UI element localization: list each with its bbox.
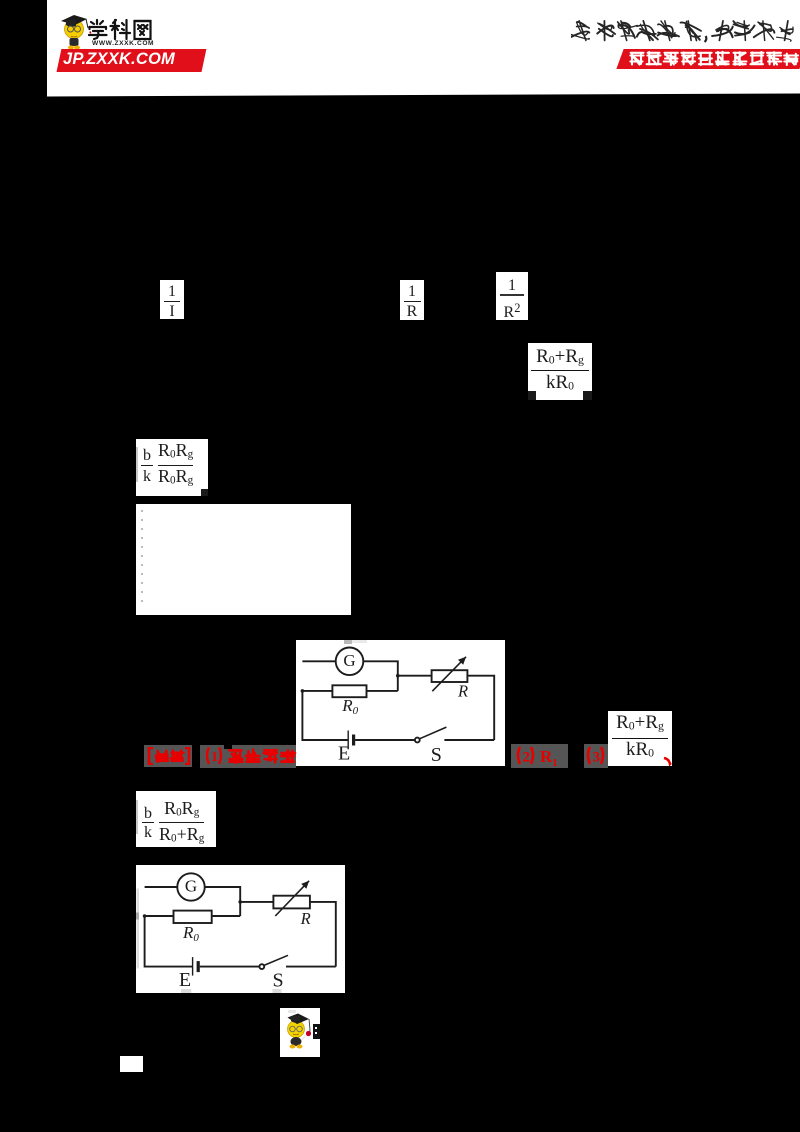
black fragment right of mascot [313,1024,320,1039]
red text (3) [584,744,608,768]
blank white region [136,504,351,615]
red comma [662,753,673,763]
small white rect [120,1056,143,1072]
formula b/k = R0Rg/(R0+Rg) [136,791,216,847]
wire junction to R [240,900,273,902]
red JP.ZXXK.COM banner [57,49,207,72]
wire junction down to R0 branch [397,676,399,691]
wire R0 to junction riser [367,690,398,692]
wire junction down to R0 branch [239,901,241,915]
svg-text:2: 2 [523,750,531,766]
svg-text:S: S [272,969,283,991]
rheostat arrow [432,657,466,691]
rheostat R [273,895,310,908]
node left junction [301,689,305,693]
zxxk mascot logo [56,8,216,52]
wire switch to right [286,965,336,967]
wire top-left [144,886,177,888]
wire battery to switch [199,965,259,967]
wire G to right [204,887,240,902]
formula 1/R^2 [496,272,528,320]
circuit diagram 1 [296,640,505,766]
wire junction to R [398,675,432,677]
formula 1/R [400,280,424,320]
circuit diagram 2 [136,865,345,993]
red text (1)... [200,745,296,768]
galvanometer G [336,648,364,676]
wire R0 to junction riser [211,915,240,917]
svg-text:R: R [299,909,310,928]
wire top-left [302,660,335,662]
header white band [47,0,800,97]
svg-text:S: S [431,744,442,766]
red label 【..】 [144,745,192,767]
svg-text:1: 1 [211,750,218,765]
svg-text:G: G [343,651,355,670]
wire left junction to R0 [144,915,173,917]
wire battery to switch [355,739,415,741]
svg-text:G: G [184,876,196,895]
red slogan banner [616,49,800,69]
svg-text:R1: R1 [540,747,558,766]
battery E plates [191,957,193,976]
resistor R0 [173,910,211,922]
wire R to right side down [309,901,335,966]
svg-text:E: E [338,743,350,765]
battery E plates [347,731,349,750]
rheostat R [432,670,468,682]
wire switch to right [444,739,494,741]
galvanometer G [177,873,204,900]
wire G to right [363,661,398,675]
wire left side down [302,691,348,740]
formula b/k = R0Rg/R0Rg [136,439,208,496]
node right junction [238,900,242,904]
svg-text:R: R [457,682,468,701]
resistor R0 [332,685,366,697]
logo text 学科网 [88,18,152,41]
switch S [415,738,420,743]
wire left side down [144,916,192,967]
formula (R0+Rg)/kR0 [528,343,592,400]
formula 1/I [160,280,184,319]
node right junction [396,674,400,678]
slogan calligraphy [571,19,800,45]
red text (2) R1 [511,744,568,768]
logo url text [92,40,148,47]
switch S [259,964,264,969]
svg-text:3: 3 [593,750,601,766]
bottom mascot [280,1008,320,1057]
rheostat arrow [275,880,309,915]
formula (R0+Rg)/kR0 second [608,711,672,766]
wire left junction to R0 [302,690,332,692]
wire R to right side down [467,676,494,740]
node left junction [142,914,146,918]
svg-text:E: E [178,969,190,991]
